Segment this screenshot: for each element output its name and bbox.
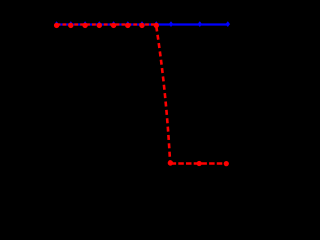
blue diamond marker 1 [54, 21, 59, 27]
red series dashed line (bottom segment) [171, 162, 228, 164]
blue series solid line (top) [57, 23, 228, 25]
red circle marker top 5 [111, 23, 116, 28]
red series dashed drop curve [156, 27, 170, 161]
blue diamond marker 9 [169, 21, 174, 27]
red series dashed line (top segment) [57, 23, 157, 25]
red circle marker top 2 [68, 23, 73, 28]
blue diamond marker 2 [69, 21, 74, 27]
red circle marker top 8 [154, 23, 159, 28]
blue diamond marker 7 [140, 21, 145, 27]
blue diamond marker 3 [83, 21, 88, 27]
blue diamond marker 4 [97, 21, 102, 27]
blue diamond marker 6 [126, 21, 131, 27]
red circle marker bottom 1 [168, 160, 173, 165]
blue diamond marker 5 [111, 21, 116, 27]
red circle marker top 1 [54, 23, 59, 28]
blue diamond marker 8 [154, 21, 159, 27]
red circle marker bottom 3 [224, 161, 229, 166]
red circle marker top 4 [97, 23, 102, 28]
blue diamond marker 11 [226, 21, 231, 27]
red circle marker top 6 [125, 23, 130, 28]
red circle marker bottom 2 [197, 161, 202, 166]
red circle marker top 7 [139, 23, 144, 28]
red circle marker top 3 [82, 23, 87, 28]
blue diamond marker 10 [198, 21, 203, 27]
